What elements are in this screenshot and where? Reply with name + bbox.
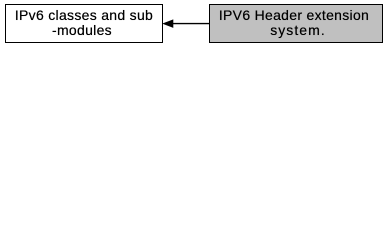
node: IPv6 classes and sub-modules (left box) xyxy=(5,4,163,43)
node label line 2: '-modules' xyxy=(2,23,162,37)
edge: arrow from right box to left box xyxy=(0,0,387,51)
node label line 1: 'IPV6 Header extension' xyxy=(214,8,374,22)
wire: edge shaft xyxy=(172,23,210,25)
node label line 2: 'system.' xyxy=(218,23,378,37)
node: IPV6 Header extension system (right box, grey filled) xyxy=(209,4,383,43)
node label line 1: 'IPv6 classes and sub' xyxy=(4,8,164,22)
arrowhead pointing left at left box edge xyxy=(163,20,173,27)
